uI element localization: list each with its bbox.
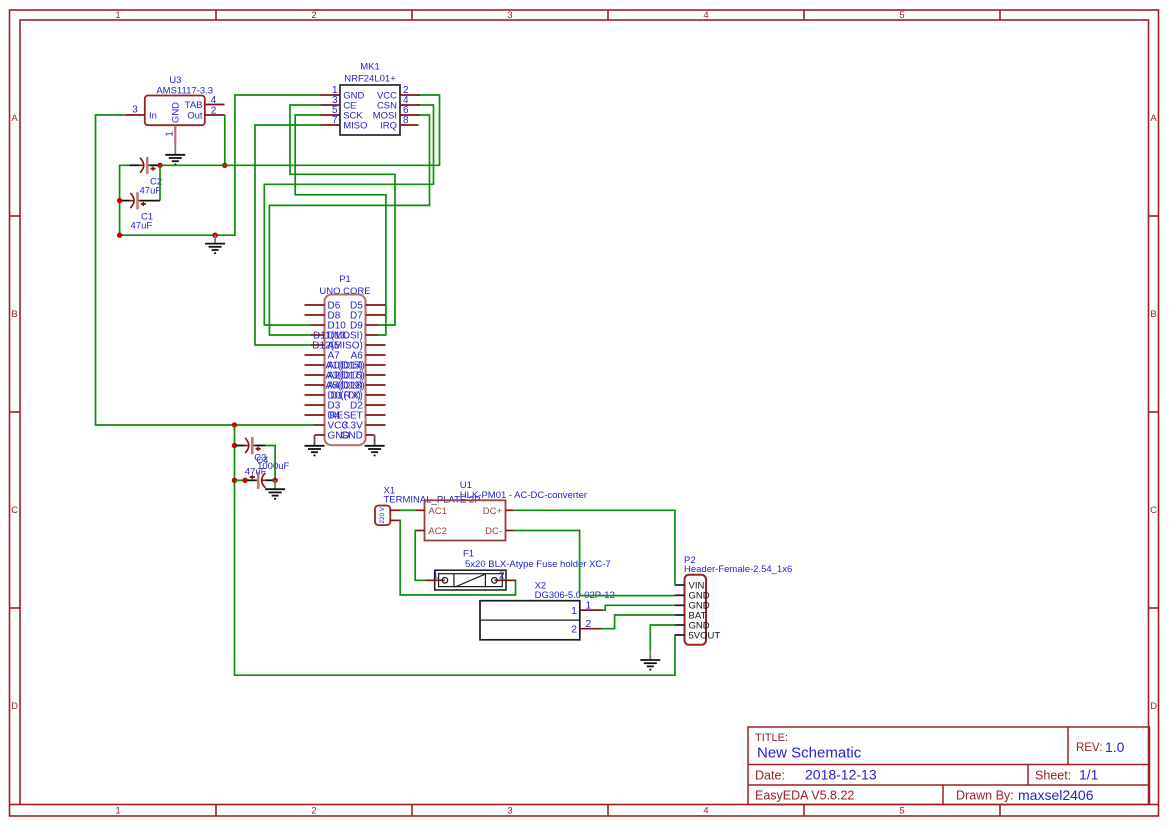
svg-text:DC-: DC- (485, 526, 502, 537)
MK1 pin 1 (321, 94, 341, 96)
wire X2.2 to P2.BAT (602, 615, 675, 629)
switch X2 DG306-5.0-02P-12 (480, 580, 615, 639)
svg-text:IRQ: IRQ (380, 120, 397, 131)
svg-text:1: 1 (115, 10, 120, 21)
svg-text:5: 5 (899, 10, 904, 21)
wire X1.2 to F1.2 (400, 520, 516, 595)
X2 pin 2 (580, 628, 602, 630)
X1 pin 2 (390, 519, 400, 521)
svg-text:2018-12-13: 2018-12-13 (805, 767, 877, 783)
capacitor C1 47uF (122, 192, 160, 231)
ground at U3 pin1 (165, 145, 185, 164)
svg-text:5VOUT: 5VOUT (689, 630, 721, 641)
svg-text:Header-Female-2.54_1x6: Header-Female-2.54_1x6 (684, 564, 792, 575)
U3 pin 3 (In) (126, 114, 146, 116)
F1 pin 2 (494, 579, 515, 581)
MK1 pin 3 (321, 104, 341, 106)
svg-text:HLK-PM01 - AC-DC-converter: HLK-PM01 - AC-DC-converter (460, 490, 587, 501)
wire C3 right to C4 right (265, 446, 275, 481)
svg-text:In: In (149, 110, 157, 121)
junction C3 tap (232, 443, 237, 448)
svg-text:MK1: MK1 (360, 62, 380, 73)
junction U3.Out / 3.3V rail (222, 163, 227, 168)
U1 pin DC- (506, 530, 514, 532)
ground at C4 (265, 480, 285, 499)
svg-text:2: 2 (586, 618, 592, 630)
svg-text:47uF: 47uF (140, 185, 162, 196)
svg-text:1: 1 (164, 131, 175, 137)
RF module MK1 NRF24L01+ (340, 62, 400, 135)
svg-text:Sheet:: Sheet: (1035, 769, 1071, 783)
X1 pin 1 (390, 509, 400, 511)
wire C4 left short (235, 479, 246, 481)
svg-text:C: C (11, 505, 18, 516)
svg-text:4: 4 (703, 10, 708, 21)
F1 pin 1 (425, 579, 445, 581)
svg-text:47uF: 47uF (131, 220, 153, 231)
svg-text:3: 3 (507, 806, 512, 817)
P1 pin names rows (312, 301, 365, 442)
wire U1.DC+ to P2.VIN (514, 510, 675, 585)
svg-text:P1: P1 (339, 274, 351, 285)
Arduino header P1 UNO CORE (319, 274, 370, 445)
svg-text:1: 1 (586, 599, 592, 611)
wire VCC branch down to 5VOUT rail (235, 425, 676, 675)
svg-text:GND: GND (171, 102, 182, 123)
svg-text:4: 4 (211, 95, 217, 106)
wire P2.GND3 to ground (650, 625, 674, 650)
svg-text:4: 4 (703, 806, 708, 817)
svg-text:AC2: AC2 (428, 526, 446, 537)
svg-text:5x20 BLX-Atype Fuse holder XC-: 5x20 BLX-Atype Fuse holder XC-7 (465, 559, 611, 570)
svg-text:220 V: 220 V (379, 506, 386, 523)
svg-text:2: 2 (311, 806, 316, 817)
svg-text:AC1: AC1 (428, 506, 446, 517)
voltage regulator U3 AMS1117-3.3 (145, 75, 213, 125)
junction C4 left (242, 478, 247, 483)
U3 pin 2 (Out) (205, 114, 225, 116)
wire X2.1 to P2.GND2 (602, 605, 675, 610)
U1 pin AC1 (415, 509, 424, 511)
svg-text:A: A (11, 113, 18, 124)
ground at P2 (640, 650, 660, 669)
junction ground tap (212, 233, 217, 238)
svg-text:Out: Out (187, 110, 203, 121)
junction corner C1 bottom (117, 233, 122, 238)
svg-text:AMS1117-3.3: AMS1117-3.3 (156, 85, 213, 96)
wire U1.AC2 to F1.1 (415, 531, 425, 581)
header P2 Header-Female-2.54_1x6 (684, 555, 792, 645)
wire MK1.MOSI to P1 row4 left (269, 115, 429, 335)
MK1 pin 8 (IRQ unconnected) (400, 124, 419, 126)
svg-text:5: 5 (899, 806, 904, 817)
junction C1- on vertical (117, 198, 122, 203)
svg-text:UNO CORE: UNO CORE (319, 286, 370, 297)
svg-text:NRF24L01+: NRF24L01+ (344, 73, 396, 84)
svg-text:3: 3 (132, 104, 138, 115)
svg-text:1/1: 1/1 (1079, 767, 1099, 783)
junction C2/C1 tap on 3.3V rail (157, 163, 162, 168)
MK1 pin 4 (400, 104, 420, 106)
svg-text:TAB: TAB (185, 100, 203, 111)
wire 3.3V rail C2 to MK1.VCC (158, 95, 440, 165)
wire MK1.SCK to P1 row4 right (295, 115, 386, 335)
svg-text:REV:: REV: (1076, 742, 1102, 754)
svg-text:Date:: Date: (755, 769, 785, 783)
svg-text:D: D (1150, 701, 1157, 712)
svg-text:DC+: DC+ (483, 506, 503, 517)
svg-text:2: 2 (571, 624, 577, 636)
U3 pin 1 (GND tab) (174, 126, 176, 146)
svg-text:B: B (11, 309, 17, 320)
svg-text:1: 1 (115, 806, 120, 817)
MK1 pin 5 (321, 114, 341, 116)
ground at C1/C2 rail (205, 235, 225, 253)
svg-text:F1: F1 (463, 549, 474, 560)
svg-text:GND: GND (341, 431, 363, 442)
wire MK1.MISO to P1 row5 left (255, 125, 321, 345)
wire U3.In to P1.VCC (96, 115, 316, 425)
junction C4 right ground tap (272, 478, 277, 483)
junction VCC rail / C3 branch (232, 422, 237, 427)
MK1 pin 7 (321, 124, 341, 126)
wire MK1.CSN to P1.D10 (264, 105, 433, 325)
AC-DC module U1 HLK-PM01 (425, 480, 588, 541)
svg-text:1: 1 (571, 605, 577, 617)
terminal X1 TERMINAL_PLATE 2P (220 V) (375, 485, 480, 525)
wire C2+ to C1+ (159, 165, 161, 200)
svg-text:Drawn By:: Drawn By: (956, 789, 1014, 803)
svg-text:D: D (11, 701, 18, 712)
svg-text:EasyEDA V5.8.22: EasyEDA V5.8.22 (755, 789, 854, 803)
svg-text:3: 3 (507, 10, 512, 21)
X2 pin 1 (580, 609, 602, 611)
P1 right pin stubs (366, 305, 386, 435)
MK1 pin 6 (400, 114, 420, 116)
capacitor C2 47uF (130, 157, 163, 197)
wire X1.1 to U1.AC1 (400, 509, 416, 511)
ground at P1 GND right (365, 435, 385, 455)
svg-text:2: 2 (211, 105, 217, 116)
wire GND net MK1.GND to C2-/C1- (120, 95, 321, 235)
svg-text:C: C (1150, 505, 1157, 516)
wire U3.Out down to 3.3V rail (224, 115, 226, 165)
svg-text:8: 8 (403, 115, 409, 126)
svg-text:7: 7 (332, 115, 338, 126)
title block (748, 727, 1150, 805)
fuse F1 5x20 BLX-Atype (435, 549, 611, 590)
wire MK1.CE to P1.D9 (290, 105, 395, 325)
svg-text:2: 2 (499, 570, 505, 582)
wire U1.DC- to P2.GND1 (514, 531, 675, 596)
P2 pin names (689, 580, 721, 641)
title block texts (755, 732, 1125, 803)
svg-text:B: B (1150, 309, 1156, 320)
capacitor C3 (236, 437, 267, 477)
ground at P1 GND left (305, 435, 325, 455)
P1 left pin stubs (305, 305, 325, 435)
junction C4 tap (232, 478, 237, 483)
P2 pin stubs (675, 585, 685, 635)
U3 pin 4 (TAB) (205, 104, 225, 106)
svg-text:New Schematic: New Schematic (757, 745, 862, 762)
svg-text:TITLE:: TITLE: (755, 732, 788, 744)
capacitor C4 (246, 455, 290, 489)
svg-text:2: 2 (311, 10, 316, 21)
svg-text:A: A (1150, 113, 1157, 124)
U1 pin AC2 (415, 530, 424, 532)
svg-text:1000uF: 1000uF (257, 461, 289, 472)
U1 pin DC+ (506, 509, 514, 511)
svg-text:maxsel2406: maxsel2406 (1018, 787, 1094, 803)
svg-text:1: 1 (433, 570, 439, 582)
MK1 pin 2 (400, 94, 420, 96)
svg-text:1.0: 1.0 (1105, 739, 1125, 755)
svg-text:MISO: MISO (343, 120, 367, 131)
